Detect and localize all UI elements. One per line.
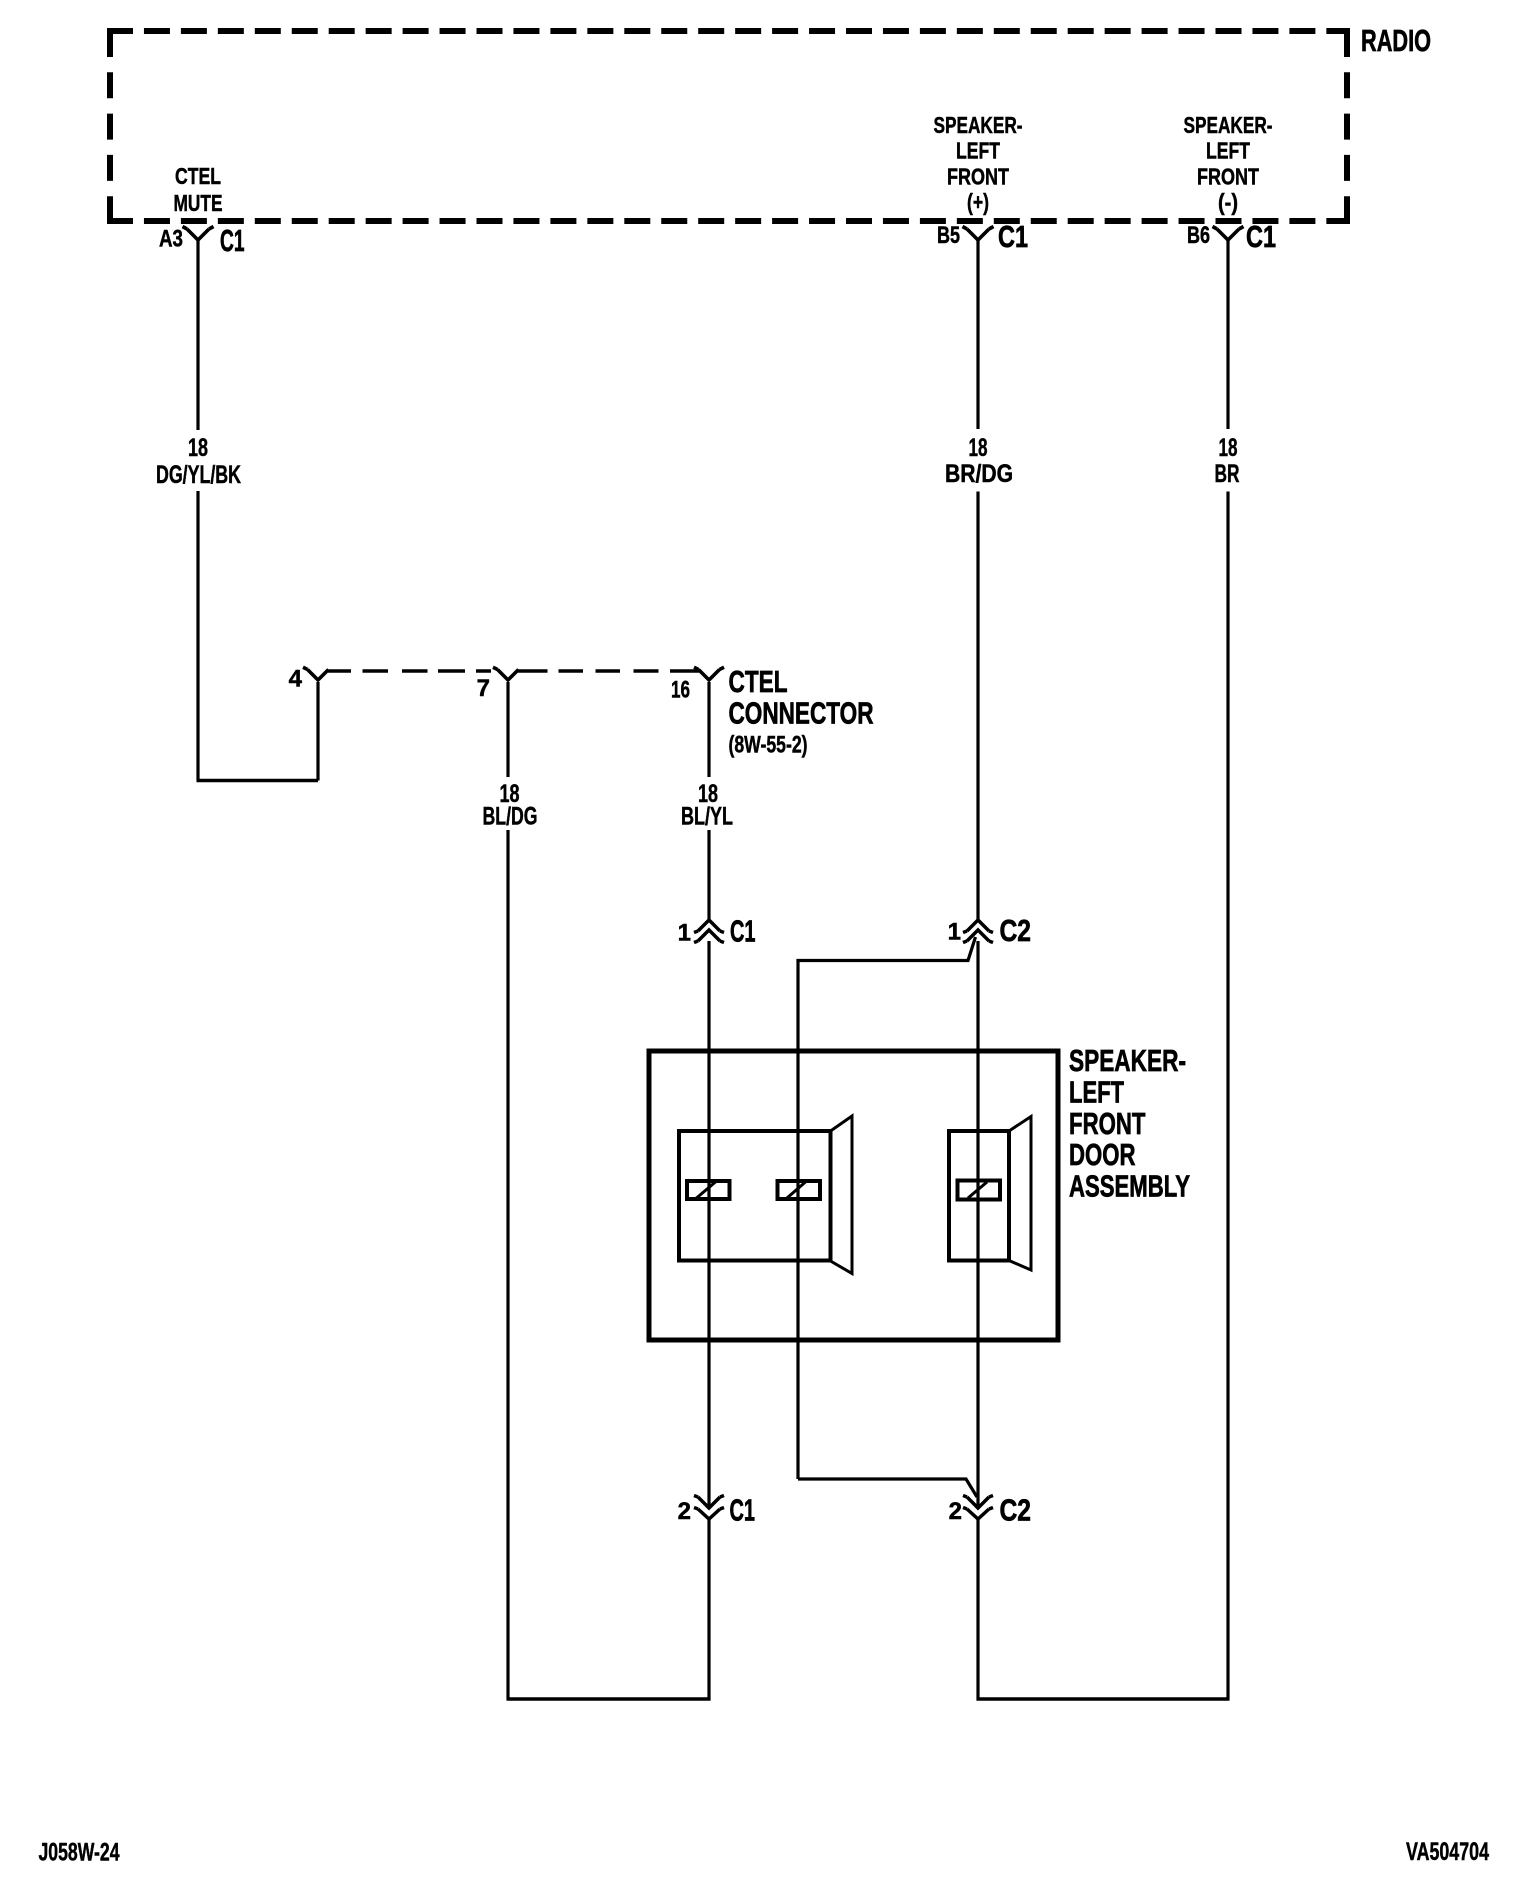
svg-text:C1: C1 [730,915,756,949]
drawing number J058W-24 [39,1839,120,1867]
CTEL connector dashed link 7-16 [518,669,699,673]
wire bottom return right [977,1697,1230,1700]
svg-text:(8W-55-2): (8W-55-2) [729,732,808,759]
wire U-loop bottom [197,779,319,782]
voice coil 3 [958,1181,1001,1200]
CTEL connector pin 4 [303,667,329,680]
svg-text:B6: B6 [1187,222,1210,249]
wire BL/DG lower full run [506,830,509,1699]
svg-text:C1: C1 [1246,220,1276,254]
pin B5 connector C1 (speaker +) [963,227,994,241]
label 18 (DG/YL/BK) [188,434,208,462]
pin label 2 (C2) [949,1498,962,1525]
pin label 7 [477,675,490,702]
SPEAKER-LEFT FRONT DOOR ASSEMBLY label [1069,1044,1186,1078]
connector label C1 (pin1) [730,915,756,949]
pin B6 connector C1 (speaker -) [1213,227,1244,241]
in-line connector C2 pin 2 [963,1496,993,1520]
connector label C2 (pin1) [1000,914,1032,948]
wire C1 pin2 return [707,1519,710,1701]
pin label 2 (C1) [678,1498,691,1525]
svg-text:BL/DG: BL/DG [483,803,538,831]
in-line connector C1 pin 2 [694,1496,724,1520]
svg-text:FRONT: FRONT [947,164,1009,190]
pin label 4 [289,666,303,693]
svg-text:CONNECTOR: CONNECTOR [729,697,874,731]
svg-text:18: 18 [188,434,208,462]
label BL/DG [483,803,538,831]
speaker tweeter cone [1009,1117,1031,1271]
svg-text:2: 2 [949,1498,962,1525]
wire DG/YL/BK lower [196,491,199,781]
svg-text:C2: C2 [1000,914,1032,948]
CTEL CONNECTOR (8W-55-2) label [729,665,788,699]
in-line connector C2 pin 1 [963,920,993,943]
svg-text:CTEL: CTEL [729,665,788,699]
wire B6 to label gap (BR upper) [1226,240,1229,429]
svg-text:FRONT: FRONT [1069,1107,1146,1141]
svg-text:J058W-24: J058W-24 [39,1839,120,1867]
in-line connector C1 pin 1 [694,920,724,943]
svg-text:LEFT: LEFT [1206,138,1250,164]
voice coil 1 [687,1181,730,1199]
label 18 (BL/DG) [500,780,520,808]
label SPEAKER-LEFT FRONT (-) [1184,112,1273,138]
svg-text:CTEL: CTEL [175,163,221,189]
connector label C1 (B6) [1246,220,1276,254]
svg-text:2: 2 [678,1498,691,1525]
wire coil3 feed through assembly [976,941,979,1508]
svg-text:C1: C1 [220,224,245,258]
svg-text:18: 18 [969,434,988,462]
wire BR lower full run [1226,492,1229,1700]
svg-text:(+): (+) [967,189,989,215]
label DG/YL/BK [156,461,241,489]
connector label C1 (B5) [998,220,1028,254]
SPEAKER-LEFT FRONT DOOR ASSEMBLY box [649,1051,1058,1340]
RADIO label [1361,24,1431,58]
RADIO box (dashed outline) [107,31,1350,221]
svg-text:SPEAKER-: SPEAKER- [934,112,1023,138]
pin label 1 (C1) [678,920,691,947]
svg-text:BR/DG: BR/DG [945,460,1013,488]
wire A3 to label gap (DG/YL/BK upper) [196,240,199,430]
wire B5 to label gap (BR/DG upper) [976,240,979,429]
svg-text:16: 16 [671,677,690,704]
svg-text:A3: A3 [159,226,183,253]
speaker woofer cone [831,1116,853,1274]
svg-text:7: 7 [477,675,490,702]
svg-text:B5: B5 [937,222,960,249]
pin label 16 [671,677,690,704]
svg-text:DOOR: DOOR [1069,1138,1136,1172]
connector label C1 (A3) [220,224,245,258]
label 18 (BL/YL) [698,780,718,808]
svg-text:VA504704: VA504704 [1406,1838,1489,1866]
pin label 1 (C2) [948,919,961,946]
svg-text:FRONT: FRONT [1197,164,1259,190]
label CTEL MUTE [175,163,221,189]
label BR [1215,460,1240,488]
wire BR/DG lower to connector C2 pin 1 [976,492,979,921]
drawing number VA504704 [1406,1838,1489,1866]
svg-text:LEFT: LEFT [1069,1076,1124,1110]
svg-text:RADIO: RADIO [1361,24,1431,58]
svg-text:BR: BR [1215,460,1240,488]
svg-text:1: 1 [948,919,961,946]
wire coil1 feed through assembly [707,941,710,1508]
label BR/DG [945,460,1013,488]
wire pin7 stem [506,682,509,777]
svg-text:LEFT: LEFT [956,138,1000,164]
svg-text:SPEAKER-: SPEAKER- [1069,1044,1186,1078]
wire pin16 stem [707,682,710,777]
svg-text:(-): (-) [1218,189,1238,215]
svg-text:BL/YL: BL/YL [681,803,733,831]
svg-text:MUTE: MUTE [174,190,223,216]
CTEL connector pin 7 [493,667,519,680]
connector label C1 (pin2) [730,1494,756,1528]
wire U-loop riser to CTEL pin 4 [316,682,319,781]
wire bottom return left [507,1697,711,1700]
svg-text:18: 18 [1219,434,1238,462]
pin A3 connector C1 (CTEL MUTE) [183,227,214,241]
svg-text:ASSEMBLY: ASSEMBLY [1069,1170,1190,1204]
CTEL connector pin 16 [694,667,724,680]
label 18 (BR) [1219,434,1238,462]
svg-text:C1: C1 [998,220,1028,254]
speaker (dual voice coil woofer) frame [679,1131,831,1261]
voice coil 2 [778,1181,821,1199]
label SPEAKER-LEFT FRONT (+) [934,112,1023,138]
label BL/YL [681,803,733,831]
svg-text:DG/YL/BK: DG/YL/BK [156,461,241,489]
wire branch voice coil 2 return to C2 pin 2 [798,1479,977,1497]
wire BL/YL lower to connector C1 pin 1 [707,830,710,920]
svg-text:C1: C1 [730,1494,756,1528]
CTEL connector dashed link 4-7 [328,669,491,673]
speaker (tweeter) frame [949,1131,1009,1261]
svg-text:C2: C2 [1000,1494,1032,1528]
wire C2 pin2 return [976,1519,979,1701]
pin label B5 [937,222,960,249]
wire branch from C2 pin1 to voice coil 2 [798,937,976,1479]
svg-text:SPEAKER-: SPEAKER- [1184,112,1273,138]
svg-text:1: 1 [678,920,691,947]
connector label C2 (pin2) [1000,1494,1032,1528]
pin label B6 [1187,222,1210,249]
pin label A3 [159,226,183,253]
label 18 (BR/DG) [969,434,988,462]
svg-text:4: 4 [289,666,303,693]
